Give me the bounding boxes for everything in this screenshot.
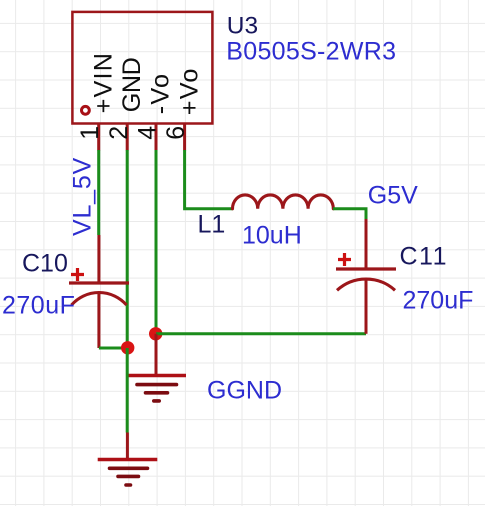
wire pin4 down to junction B xyxy=(155,150,158,334)
svg-text:+Vo: +Vo xyxy=(175,67,203,115)
svg-text:G5V: G5V xyxy=(368,182,418,210)
inductor L1 xyxy=(233,195,334,209)
svg-text:270uF: 270uF xyxy=(2,292,75,320)
svg-text:C10: C10 xyxy=(22,250,68,278)
svg-text:U3: U3 xyxy=(227,13,258,40)
svg-text:GND: GND xyxy=(118,58,146,113)
capacitor C10 plus sign xyxy=(71,268,84,281)
U3 pin 1 stub xyxy=(97,123,100,151)
wire junction A down to ground xyxy=(126,348,129,433)
svg-text:-Vo: -Vo xyxy=(147,73,175,114)
capacitor C11 plus sign xyxy=(338,253,351,266)
capacitor C11 curved plate xyxy=(337,279,395,290)
svg-text:VL_5V: VL_5V xyxy=(69,157,97,236)
U3 pin 1 polarity circle xyxy=(82,106,90,114)
capacitor C11 top plate xyxy=(336,267,396,270)
svg-text:4: 4 xyxy=(134,126,162,140)
svg-text:+VIN: +VIN xyxy=(89,52,117,114)
junction A xyxy=(121,341,134,354)
IC U3 body xyxy=(72,12,212,124)
wire pin1 to C10 (VL_5V net) xyxy=(97,150,100,235)
svg-text:GGND: GGND xyxy=(207,377,282,405)
svg-text:C11: C11 xyxy=(400,243,449,271)
U3 pin 4 stub xyxy=(155,123,158,151)
U3 pin 2 stub xyxy=(126,123,129,151)
svg-text:B0505S-2WR3: B0505S-2WR3 xyxy=(226,38,396,66)
capacitor C10 top pin xyxy=(97,235,100,283)
capacitor C11 bottom pin xyxy=(365,280,368,334)
bottom ground symbol xyxy=(98,458,158,461)
GGND ground symbol xyxy=(127,374,186,377)
capacitor C10 top plate xyxy=(69,281,129,284)
wire C10 bottom to junction A xyxy=(99,347,127,350)
svg-text:10uH: 10uH xyxy=(242,222,302,250)
wire pin6 down xyxy=(185,150,233,209)
bottom ground pin xyxy=(126,433,129,460)
wire L1 to C11 (G5V net) xyxy=(333,209,366,220)
junction B xyxy=(149,327,162,340)
svg-text:L1: L1 xyxy=(198,211,226,239)
wire pin2 down to junction A xyxy=(126,150,129,348)
svg-text:270uF: 270uF xyxy=(403,287,474,315)
capacitor C10 bottom pin xyxy=(97,294,100,348)
svg-text:2: 2 xyxy=(105,126,133,140)
U3 pin 6 stub xyxy=(183,123,186,151)
GGND ground pin xyxy=(155,334,158,376)
svg-text:6: 6 xyxy=(162,126,190,140)
wire junction B to C11 bottom xyxy=(156,332,366,335)
capacitor C11 top pin xyxy=(365,219,368,269)
capacitor C10 curved plate xyxy=(72,293,127,305)
svg-text:1: 1 xyxy=(76,126,104,140)
